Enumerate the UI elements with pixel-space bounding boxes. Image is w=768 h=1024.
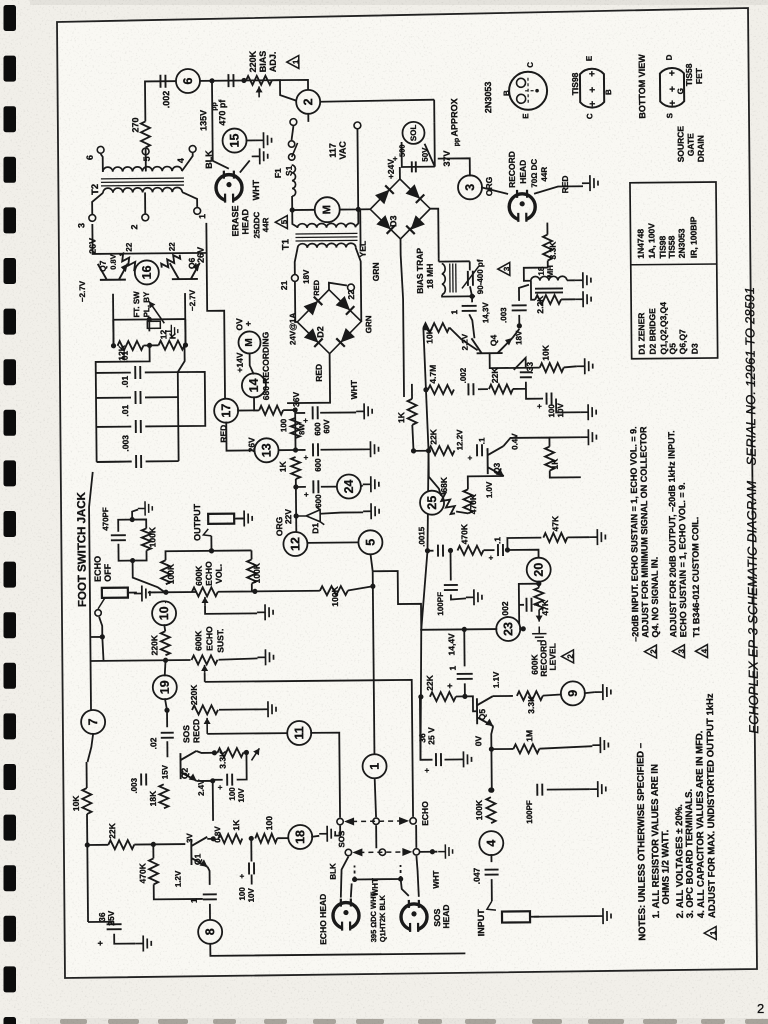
capacitor 18MH parallel	[535, 288, 563, 292]
wire 1M gnd	[539, 746, 592, 749]
w	[165, 591, 167, 593]
wire loop to rail	[133, 560, 165, 592]
resistor 1K q1	[218, 834, 242, 843]
node 10	[152, 601, 176, 625]
wire out tip down	[210, 536, 212, 551]
wire sust to echo contact	[205, 680, 413, 819]
T1 winding bottom	[298, 243, 356, 248]
wire cap1 right	[145, 396, 178, 398]
zener diode D1	[296, 507, 324, 525]
wire M to 14	[250, 353, 254, 374]
parts table box	[630, 182, 718, 359]
capacitor .002	[160, 75, 165, 88]
wire osc mid rail	[113, 318, 185, 321]
wire to .02	[166, 710, 168, 727]
ground input	[595, 908, 611, 924]
resistor 12K right	[158, 341, 184, 350]
resistor 100 q1	[255, 834, 277, 843]
junction	[521, 626, 526, 631]
wire cap3 right	[146, 460, 179, 462]
resistor 68K	[438, 491, 458, 515]
junction	[111, 343, 116, 348]
capacitor .01 #3	[136, 420, 141, 433]
switch blade	[149, 301, 164, 323]
transistor case TIS98 bottom view	[580, 69, 604, 108]
wire Q5 coll	[493, 695, 513, 697]
wire osc mid tap	[148, 319, 150, 331]
wire .002 r	[534, 604, 539, 606]
wire staircase	[373, 571, 422, 630]
capacitor 600 b	[313, 443, 318, 456]
wire shield bar	[355, 878, 401, 880]
node 6	[176, 69, 200, 93]
junction	[352, 877, 357, 882]
capacitor .02	[161, 733, 174, 738]
junction	[423, 325, 428, 330]
wire 10K to base	[449, 327, 477, 350]
bridge rectifier D2 outline	[297, 289, 362, 354]
junction	[183, 342, 188, 347]
ground 600 60V	[356, 403, 372, 419]
wire 22K l	[87, 844, 108, 846]
resistor 68K diag	[438, 491, 458, 515]
wire 1K dn	[550, 470, 581, 477]
resistor 100 8W	[291, 418, 300, 438]
resistor 100K ev2	[247, 559, 256, 583]
junction 22V	[294, 513, 299, 518]
wire 23 bus	[420, 628, 497, 631]
node 7	[81, 710, 105, 734]
wire 7 bus	[89, 472, 95, 710]
ground	[255, 132, 271, 148]
junction	[151, 842, 156, 847]
junction	[356, 207, 361, 212]
wire head red	[534, 186, 583, 193]
wire cap2 left	[96, 426, 131, 428]
wire osc right	[178, 345, 185, 372]
ground D1	[363, 503, 379, 519]
transistor case TIS58 bottom view	[660, 68, 684, 107]
wire 18 gnd	[311, 836, 319, 837]
wire SOL loop left	[402, 142, 435, 167]
junction	[418, 694, 423, 699]
pot wiper 220K	[258, 86, 260, 97]
transistor Q5	[477, 696, 493, 726]
pot wiper echo vol	[204, 597, 206, 606]
wire T2 to 3	[92, 193, 103, 214]
ground 47K top	[589, 529, 605, 545]
resistor 470K q3	[463, 489, 472, 513]
ground Q4	[577, 358, 593, 374]
junction	[209, 548, 214, 553]
wire to Q5 base	[465, 696, 477, 711]
wire bias rail	[145, 80, 308, 122]
node 5	[358, 530, 382, 554]
wire 1M l	[491, 748, 513, 750]
wire 23 r	[519, 628, 523, 630]
wire D2 to 36V rail	[287, 354, 330, 403]
wire 25 to 22K	[429, 451, 441, 496]
wire 7 dn	[87, 733, 93, 762]
wire feedback loop	[178, 372, 206, 426]
linkage arrow right row2	[402, 848, 412, 856]
wire 100pf q5 up	[449, 551, 451, 581]
wire to 8	[209, 904, 211, 921]
junction	[210, 778, 215, 783]
capacitor 470PF	[111, 535, 126, 540]
ground 100 q3	[580, 404, 596, 420]
capacitor 100 10V	[546, 393, 551, 405]
wire main bus	[401, 239, 405, 397]
wire shield dash l	[354, 865, 356, 879]
wire supply chain 1	[283, 410, 295, 450]
wire Q6 base down	[184, 293, 186, 345]
wire Q1 coll	[207, 838, 213, 840]
wire to input jack	[491, 879, 493, 901]
wire 470K r	[483, 549, 494, 551]
contact sos echo c	[410, 818, 416, 824]
resistor 10K q1	[82, 788, 91, 814]
capacitor .1 q3	[477, 444, 482, 456]
wire sust rail L	[91, 659, 191, 662]
ground output jack	[236, 510, 252, 526]
wire D2 top out	[329, 283, 347, 290]
transistor Q2	[180, 751, 196, 781]
ground 100pf q5	[466, 589, 482, 605]
wire trap top	[439, 260, 470, 262]
wire .003 dn	[518, 315, 520, 326]
wire to 600 cap	[295, 412, 305, 414]
junction q5 in	[505, 547, 510, 552]
wire 600b gnd	[321, 448, 363, 450]
ground 24	[363, 476, 379, 492]
wire to 600c	[296, 486, 306, 488]
wire echo contact link	[415, 825, 417, 848]
jack input	[502, 911, 530, 922]
wire 10 up	[164, 601, 167, 603]
ground record head	[582, 175, 598, 191]
junction	[209, 78, 214, 83]
wire 21 to D2	[295, 282, 298, 322]
ground sust rail	[257, 649, 273, 665]
node 15	[222, 128, 246, 152]
resistor 22K q5	[430, 692, 456, 701]
capacitor 1 q5	[457, 674, 473, 679]
resistor 270	[141, 121, 150, 147]
wire 19 up	[165, 660, 166, 676]
contact sos echo b	[373, 818, 379, 824]
resistor 22 diag L	[118, 252, 140, 270]
wire choke gnd	[567, 279, 575, 281]
wire cap0 left	[96, 372, 131, 374]
resistor 100K input	[486, 797, 495, 823]
transformer T2 core	[101, 178, 184, 186]
ground 18	[319, 826, 335, 842]
linkage arrow left row2	[352, 848, 362, 856]
wire Q4 emitter up	[512, 329, 519, 338]
contact head c	[413, 849, 419, 855]
erase head	[216, 171, 242, 204]
note triangle 1	[704, 926, 718, 939]
junction	[488, 788, 493, 793]
wire T2 to 6	[101, 154, 103, 172]
trimmer arrow	[462, 266, 479, 288]
wire Q5 emit	[491, 726, 493, 749]
wire q3 base	[486, 449, 489, 451]
wire .33 up	[514, 358, 526, 370]
junction	[370, 584, 375, 589]
ground 470pf	[138, 501, 153, 516]
wire to 18	[277, 837, 289, 839]
wire rail to 100K	[255, 590, 320, 593]
wire 117 right down	[339, 129, 358, 209]
capacitor 100PF q5	[444, 585, 458, 590]
terminal 22	[348, 284, 355, 291]
ground Q3	[580, 429, 596, 445]
resistor 100K fs	[142, 528, 151, 550]
potentiometer 220K bias adj	[246, 76, 272, 85]
capacitor 600 60V	[313, 406, 318, 419]
contact head a	[345, 849, 351, 855]
wire .02 dn	[166, 741, 168, 757]
wiper 3.3K	[251, 748, 259, 760]
resistor 22K q1	[108, 840, 134, 849]
wire 1K mid up	[411, 384, 413, 399]
warning triangle	[561, 650, 575, 663]
wire osc mid R	[184, 319, 186, 345]
junction	[163, 658, 168, 663]
resistor 1M	[513, 744, 539, 753]
junction	[147, 317, 152, 322]
capacitor .01 #1	[135, 366, 140, 379]
terminal 4	[189, 146, 196, 153]
transistor Q4	[471, 338, 512, 353]
wire to 11	[207, 732, 288, 735]
ground 600 b	[362, 441, 378, 457]
wire 4 dn	[490, 854, 492, 862]
wire trim top	[469, 261, 471, 270]
switch contact foot	[98, 598, 105, 609]
node 19	[153, 675, 177, 699]
wire 5 to bus	[371, 554, 373, 571]
wire 600 gnd	[320, 411, 356, 413]
wire contact branch	[90, 637, 103, 661]
node 16	[135, 260, 159, 284]
wire 68K to 470K	[456, 511, 468, 513]
resistor 220K sos	[192, 705, 218, 714]
wire T1 sec right	[356, 247, 362, 321]
wire 1K gnd	[549, 436, 580, 438]
wire 15 to gnd	[246, 139, 256, 141]
wire sos head blk	[401, 879, 409, 896]
capacitor .33	[520, 372, 532, 377]
bridge diode D2 c	[304, 328, 323, 347]
junction	[462, 694, 467, 699]
wire Q7 base down	[112, 294, 114, 346]
terminal 1	[194, 208, 201, 215]
wire 10K up	[86, 762, 88, 788]
junction	[209, 548, 214, 553]
junction	[517, 323, 522, 328]
parts table divider	[631, 263, 717, 266]
wire 22K to node	[456, 695, 465, 697]
node 17	[214, 399, 238, 423]
wire sust wiper dn	[204, 673, 206, 682]
wire 10K e gnd	[564, 366, 577, 367]
wire fb right	[513, 382, 526, 389]
wire 12K join	[144, 344, 159, 346]
node 1	[362, 754, 386, 778]
warning triangle	[287, 55, 301, 68]
wire rail start	[427, 550, 433, 552]
ground erase wht	[252, 148, 268, 164]
wire 100 gnd	[556, 398, 580, 412]
wire Q3 coll	[503, 438, 549, 447]
wire to 12	[295, 516, 297, 532]
jack output	[208, 514, 234, 524]
fuse F1	[292, 165, 296, 196]
wire to D3	[399, 167, 401, 179]
wire 220K gnd	[219, 708, 260, 710]
wire common bottom	[210, 940, 465, 955]
resistor 22 diag R	[160, 252, 182, 270]
ground 100pf	[590, 781, 606, 797]
capacitor q1 e	[249, 862, 254, 874]
wire loop gnd	[132, 510, 138, 520]
wire .002 l	[519, 604, 524, 606]
wire D1 gnd	[320, 512, 363, 513]
capacitor 100PF	[537, 784, 542, 796]
wire T2 tap 5	[145, 147, 147, 171]
node 25	[420, 491, 444, 515]
terminal 117 left	[290, 119, 297, 126]
wire Q4 base dn	[490, 353, 540, 368]
echo head	[333, 898, 359, 931]
pot wiper sos recd	[206, 718, 208, 734]
capacitor .003 q2	[141, 773, 146, 785]
junction	[489, 788, 494, 793]
resistor 10K q4	[423, 323, 449, 332]
binder holes left edge	[4, 5, 17, 1024]
ground record level	[532, 626, 547, 641]
bridge diode D2 d	[336, 328, 355, 347]
wire 470K up	[468, 476, 504, 489]
capacitor .047	[485, 870, 499, 875]
pot wiper record level	[538, 610, 540, 622]
wire 100K to bus	[348, 586, 373, 590]
wire to T1 top R	[355, 209, 358, 226]
wire cap1 left	[96, 397, 131, 399]
node 23	[496, 617, 520, 641]
wire supply chain 2	[295, 479, 297, 516]
wire 1 cap up	[471, 296, 473, 302]
wire 2.2K gnd	[561, 298, 575, 300]
terminal 2	[142, 214, 149, 221]
inductor 18MH	[531, 276, 567, 281]
photocopy speckle overlay	[0, 0, 1, 1]
wire 13 join	[279, 449, 296, 451]
wire 17 to 680	[237, 409, 259, 411]
wire cap3 left	[97, 461, 132, 463]
wire 470 loop bottom	[118, 543, 146, 560]
junction	[469, 294, 474, 299]
wire .003 up	[519, 285, 529, 301]
junction	[147, 343, 152, 348]
resistor 3.3K rec	[543, 235, 552, 261]
junction	[130, 558, 135, 563]
resistor 47K pot	[534, 588, 543, 610]
scanner noise top edge	[30, 0, 768, 5]
capacitor .002 q5	[526, 598, 531, 612]
wire to 600b	[296, 449, 306, 451]
ground head sw	[438, 844, 453, 859]
wire bus to 36 cap	[420, 697, 433, 760]
junction below 20	[536, 581, 541, 586]
sos head	[401, 900, 427, 933]
wire main bus lower	[416, 328, 431, 760]
bridge diode D3 a	[375, 185, 394, 204]
switch S1 blade	[292, 143, 298, 157]
capacitor 600 c	[313, 480, 318, 493]
bridge diode D2 b	[336, 296, 355, 315]
wire contact dn	[99, 617, 102, 637]
terminal 5	[142, 148, 149, 155]
wire echo rail	[148, 591, 196, 593]
wire echo head blk	[340, 857, 348, 898]
resistor 100K ev	[161, 560, 170, 584]
bridge diode D2 a	[304, 296, 323, 315]
wire ladder right rail	[177, 372, 180, 461]
resistor 18K	[159, 784, 168, 808]
capacitor 90-400pf trimmer	[468, 271, 473, 286]
wire 1 cap to Q4	[469, 314, 474, 338]
capacitor 36 25V	[107, 924, 122, 929]
resistor 470K q5	[457, 546, 483, 555]
wire 1 cap up	[463, 629, 465, 666]
wire middle contact link	[375, 825, 377, 848]
output tip	[203, 529, 211, 536]
note triangle 2	[644, 645, 658, 658]
wire row2 gnd	[419, 851, 437, 853]
wire q3 e	[503, 475, 505, 477]
wire ladder bottom	[97, 461, 132, 463]
resistor 600K echo vol	[192, 587, 218, 596]
resistor 1K q3	[545, 447, 554, 471]
node 12	[283, 532, 307, 556]
resistor 22K q3	[428, 446, 454, 455]
junction	[462, 627, 467, 632]
transistor Q3	[487, 446, 503, 476]
wire fuse to motor	[292, 196, 314, 210]
junction	[411, 448, 416, 453]
T2 winding top	[103, 166, 182, 171]
bridge diode D3 b	[406, 184, 425, 203]
capacitor 1 coupling	[462, 306, 477, 311]
node 11	[287, 721, 311, 745]
wire Q2 coll	[196, 751, 217, 753]
wire cap q1 up	[250, 838, 252, 861]
junction	[398, 876, 403, 881]
wire trim bottom	[470, 286, 472, 296]
linkage arrow right row1	[399, 817, 409, 825]
T2 winding bottom	[103, 187, 182, 192]
meter M recording	[238, 331, 260, 353]
junction	[252, 589, 257, 594]
resistor 1K mid	[408, 399, 417, 425]
wire ev2 dn	[218, 583, 252, 591]
junction	[241, 78, 246, 83]
wire 100pf q5 gnd	[451, 594, 466, 599]
